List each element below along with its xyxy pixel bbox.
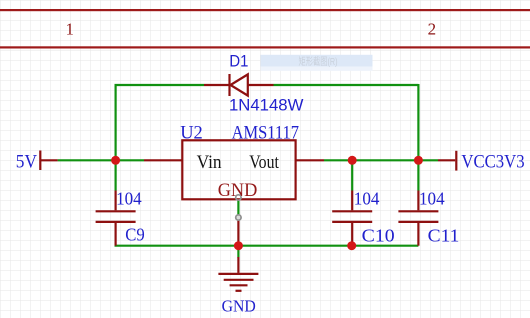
svg-text:Vin: Vin [197,152,222,173]
svg-text:GND: GND [218,181,258,201]
svg-text:1N4148W: 1N4148W [229,95,303,114]
svg-text:C10: C10 [362,226,395,246]
svg-text:5V: 5V [16,153,38,173]
svg-text:C9: C9 [125,224,145,244]
svg-text:Vout: Vout [249,152,279,173]
svg-text:C11: C11 [428,226,460,246]
svg-text:AMS1117: AMS1117 [232,123,299,144]
svg-text:VCC3V3: VCC3V3 [461,152,524,172]
svg-text:D1: D1 [229,51,248,70]
svg-text:104: 104 [116,189,142,209]
svg-text:矩形截图(R): 矩形截图(R) [299,55,338,68]
svg-text:104: 104 [354,189,380,209]
svg-text:U2: U2 [180,123,203,144]
svg-text:GND: GND [222,297,256,316]
svg-text:104: 104 [419,189,445,209]
svg-text:2: 2 [428,19,437,38]
svg-text:1: 1 [65,19,74,38]
